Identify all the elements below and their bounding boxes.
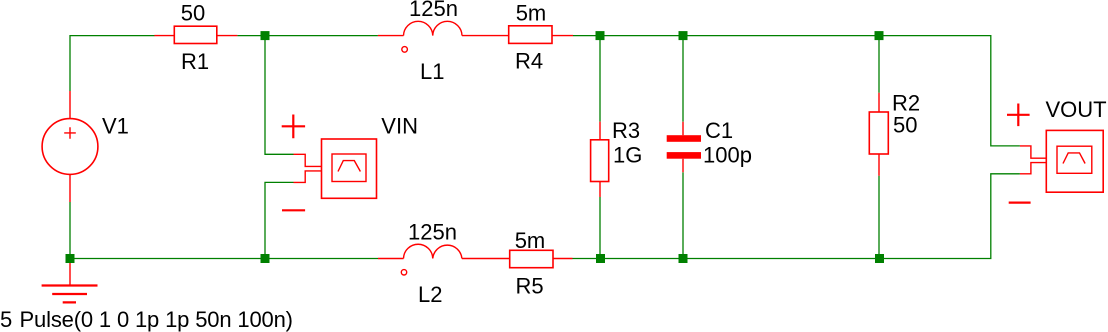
svg-text:100p: 100p bbox=[703, 142, 752, 167]
capacitor C1 bbox=[667, 122, 701, 173]
node junction bottom at C1 bbox=[679, 254, 688, 263]
inductor L2 bbox=[378, 244, 510, 275]
wire R2 bottom bbox=[878, 176, 880, 259]
node junction top at R3 bbox=[596, 31, 605, 40]
svg-text:V1: V1 bbox=[102, 114, 129, 139]
svg-text:L1: L1 bbox=[420, 59, 444, 84]
wire C1 top bbox=[682, 36, 684, 122]
svg-text:50: 50 bbox=[893, 112, 917, 137]
svg-text:1G: 1G bbox=[613, 142, 642, 167]
wire top bus middle bbox=[237, 35, 378, 37]
voltage source V1 bbox=[42, 91, 98, 202]
svg-text:R5: R5 bbox=[516, 274, 544, 299]
resistor R5 bbox=[510, 250, 573, 267]
probe VOUT bbox=[1007, 104, 1103, 203]
wire VIN minus rise from bottom bus bbox=[265, 182, 294, 258]
wire bottom bus left bbox=[70, 258, 378, 260]
svg-text:Pulse(0 1 0 1p 1p 50n 100n): Pulse(0 1 0 1p 1p 50n 100n) bbox=[20, 307, 293, 332]
svg-text:VIN: VIN bbox=[381, 113, 418, 138]
node junction bottom at R3 bbox=[596, 254, 605, 263]
inductor L1 bbox=[378, 21, 509, 52]
svg-text:C1: C1 bbox=[705, 118, 733, 143]
node junction bottom at ground bbox=[66, 254, 75, 263]
resistor R3 bbox=[591, 122, 609, 197]
node junction top at C1 bbox=[679, 31, 688, 40]
node junction bottom at R2 bbox=[875, 254, 884, 263]
wire bottom bus right with rise to VOUT minus stub bbox=[573, 174, 1020, 259]
wire top bus right with drop to VOUT plus stub bbox=[573, 36, 1020, 146]
wire R2 top bbox=[878, 36, 880, 93]
resistor R1 bbox=[154, 26, 237, 43]
wire R3 bottom bbox=[599, 197, 601, 259]
svg-text:50: 50 bbox=[181, 1, 205, 26]
svg-text:R1: R1 bbox=[181, 49, 209, 74]
svg-text:R4: R4 bbox=[515, 49, 543, 74]
resistor R2 bbox=[869, 93, 888, 176]
svg-text:5m: 5m bbox=[515, 228, 546, 253]
wire top bus left bbox=[70, 36, 155, 91]
svg-text:VOUT: VOUT bbox=[1046, 97, 1107, 122]
probe VIN bbox=[282, 115, 377, 211]
svg-text:5: 5 bbox=[0, 307, 12, 332]
wire V1 bottom to ground junction bbox=[69, 202, 71, 259]
resistor R4 bbox=[509, 26, 573, 44]
wire C1 bottom bbox=[682, 172, 684, 258]
svg-text:L2: L2 bbox=[418, 282, 442, 307]
ground bbox=[42, 263, 98, 302]
node junction top at R1 output / VIN bbox=[261, 31, 270, 40]
wire VIN plus drop from top bus bbox=[265, 36, 294, 155]
wire R3 top bbox=[599, 36, 601, 122]
node junction bottom at VIN bbox=[261, 254, 270, 263]
svg-text:5m: 5m bbox=[516, 0, 547, 25]
svg-text:125n: 125n bbox=[408, 220, 457, 245]
svg-text:125n: 125n bbox=[409, 0, 458, 21]
svg-text:R3: R3 bbox=[612, 118, 640, 143]
node junction top at R2 bbox=[875, 31, 884, 40]
